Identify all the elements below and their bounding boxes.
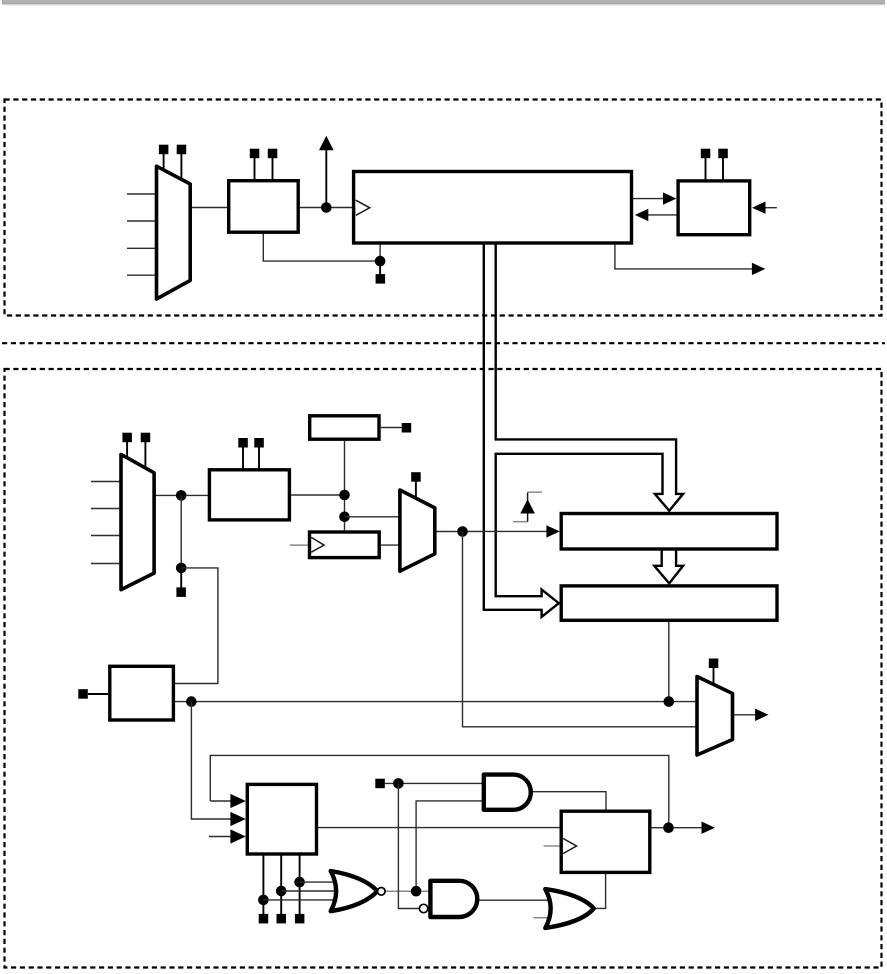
stem capture-mode select 2 (258, 448, 260, 470)
node capture path dot 2 (339, 512, 350, 523)
arrowhead up on timer clock node (319, 136, 334, 151)
clock triangle on flip-flop (563, 838, 577, 853)
wire EQU line from latch to output mux and gates (173, 701, 697, 703)
wire output unit bottom stub 1 (262, 854, 264, 914)
label square SCCI (176, 587, 186, 597)
label square OUT (375, 779, 385, 789)
node CCI junction dot (176, 490, 187, 501)
node timer clock junction dot (321, 202, 332, 213)
dashed border timer-block section (5, 100, 882, 316)
sync box (310, 532, 380, 558)
wire POR stub into OR2 (534, 917, 554, 919)
divider box ID (229, 181, 299, 233)
label square mux2 select 1 (122, 433, 131, 443)
OR gate 2 (545, 889, 594, 928)
stem output mux select (713, 668, 715, 684)
wire SCCI to latch box path (173, 568, 218, 684)
label square mux2 select 2 (141, 433, 151, 443)
node clear junction dot (375, 256, 386, 267)
wire clear stub down to label square (379, 261, 381, 274)
mux TASSEL (input select) (157, 166, 191, 299)
wire divider clear path (263, 232, 380, 261)
wire OUT signal with label to AND1 (385, 782, 484, 784)
wire mux2 output to capture-mode box (154, 494, 209, 496)
wire mux2 input 3 (91, 535, 121, 537)
node EQU junction dot (664, 696, 675, 707)
label square clear signal (376, 274, 386, 284)
wire up-arrow shaft on timer clock node (325, 150, 327, 208)
NOR output bubble (378, 888, 386, 896)
arrowhead output unit input 2 (230, 812, 245, 826)
wire mux2 input 1 (91, 481, 121, 483)
wire mux1 to divider (190, 207, 229, 209)
arrowhead into count-mode box (663, 192, 676, 204)
wire compare latch bottom stub (668, 620, 670, 701)
wire timer overflow output (615, 243, 753, 269)
wire timer clock stub into flip-flop (544, 845, 560, 847)
rising edge glyph low line (513, 521, 528, 523)
clock triangle on timer register (356, 200, 370, 215)
wire mux2 input 4 (91, 563, 121, 565)
mux SCS (sync select) (400, 490, 435, 571)
mux CCIS (capture input select) (121, 454, 154, 589)
arrowhead capture into register (546, 525, 559, 537)
arrowhead into timer (635, 209, 648, 221)
stem SCS mux select (415, 481, 417, 499)
NOR gate (331, 871, 378, 911)
hollow bus arrow from timer to capture register and compare latch (484, 243, 683, 617)
label square count-mode select 1 (701, 149, 711, 159)
stem capture-mode select 1 (242, 448, 244, 470)
AND gate 2 with bubble (430, 881, 477, 917)
label square count-mode select 2 (718, 149, 728, 159)
node outmod dot 3 (294, 877, 305, 888)
wire outmod to NOR input 2 (281, 890, 341, 892)
wire count-mode box to timer (648, 214, 678, 216)
label square mux1 select 1 (159, 145, 169, 155)
wire mux1 input 1 (127, 193, 157, 195)
arrowhead output mux out (755, 709, 768, 721)
label square output mux select (709, 659, 719, 669)
mux CAP (capture/compare select) (697, 677, 733, 756)
page header gray bar (2, 0, 885, 5)
label square SCS select (411, 472, 421, 482)
wire SCS mux output to capture register (435, 530, 547, 532)
wire capture-mode output (291, 494, 344, 496)
dashed border capture-compare section (5, 369, 882, 968)
wire sync box output to SCS mux (381, 544, 400, 546)
wire outmod to NOR input 1 (263, 899, 341, 901)
stem count-mode select 2 (722, 158, 724, 181)
wire timer clock stub into sync (290, 544, 308, 546)
label square outmod 3 (295, 914, 305, 924)
wire AND1 output to flip-flop top (531, 792, 606, 812)
label square capture-mode select 2 (254, 438, 263, 448)
wire mux1 input 4 (127, 274, 157, 276)
AND2 input bubble (419, 904, 427, 912)
label square outmod 2 (277, 914, 287, 924)
wire CCI vertical branch (180, 495, 182, 568)
wire output mux out (733, 714, 756, 716)
node SCCI junction dot (176, 563, 187, 574)
label square mux1 select 2 (177, 145, 187, 155)
arrowhead output unit input 3 (230, 829, 245, 843)
wire mux1 input 2 (127, 220, 157, 222)
label square COV (402, 423, 412, 433)
label square capture-mode select 1 (238, 438, 248, 448)
wire async branch to SCS mux (345, 516, 400, 518)
rising edge glyph vertical (527, 492, 529, 522)
label square divider select 2 (268, 149, 278, 159)
arrowhead output unit input 1 (230, 794, 245, 808)
node NOR out dot (411, 886, 422, 897)
wire outmod to NOR input 3 (300, 881, 341, 883)
label square outmod 1 (259, 914, 269, 924)
wire EQU0 vertical to output unit (191, 702, 231, 819)
node capture path dot 1 (339, 490, 350, 501)
wire mux2 input 2 (91, 508, 121, 510)
stem divider select 2 (272, 158, 274, 181)
wire NOR output to AND2 (385, 890, 432, 892)
label square divider select 1 (250, 149, 259, 159)
rising edge glyph high line (528, 491, 542, 493)
stem mux1 select 1 (163, 154, 165, 171)
node outmod dot 2 (276, 886, 287, 897)
wire clear stub up to timer (379, 243, 381, 261)
wire OUT down to AND2 bubble (398, 783, 419, 908)
stem mux2 select 1 (126, 442, 128, 459)
wire divider to timer clock input (298, 207, 353, 209)
node outmod dot 1 (258, 895, 269, 906)
wire OR2 output to flip-flop bottom (594, 872, 606, 908)
capture register box (561, 514, 777, 550)
D flip-flop box (561, 811, 650, 872)
wire stub into count-mode right (765, 207, 777, 209)
wire CAP select box square stub (88, 693, 110, 695)
logic box above sync (310, 416, 379, 439)
node EQU0 dot at CAP box (186, 696, 197, 707)
wire OUT feedback horizontal (210, 755, 669, 827)
capture mode box (209, 470, 289, 520)
rising edge glyph arrow (520, 499, 535, 513)
stem mux1 select 2 (180, 154, 182, 180)
wire NOR out up to AND1 input 2 (416, 801, 484, 891)
arrowhead into count-mode right (752, 202, 765, 214)
dashed divider line (2, 342, 885, 344)
timer register box (354, 172, 632, 244)
wire capture signal down to output mux (463, 532, 698, 727)
stem divider select 1 (254, 158, 256, 181)
hollow arrow capture register to compare latch (654, 550, 683, 584)
wire timer clock stub into output unit (209, 836, 231, 838)
wire flip-flop output (650, 827, 702, 829)
wire mux1 input 3 (127, 247, 157, 249)
AND gate 1 (484, 775, 531, 810)
wire output unit bottom stub 2 (280, 854, 282, 914)
node capture signal dot (457, 526, 468, 537)
wire AND2 output to OR2 (477, 899, 552, 901)
wire top box output to label (381, 427, 402, 429)
stem mux2 select 2 (144, 442, 146, 469)
wire vertical CCI to sync (344, 441, 346, 530)
stem SCCI label (180, 568, 182, 588)
wire timer to count-mode box (632, 198, 665, 200)
compare latch box (561, 586, 777, 620)
count mode box (678, 181, 750, 235)
output unit box (247, 784, 316, 854)
wire into output unit arrow 1 (210, 800, 231, 802)
clock triangle on sync box (311, 537, 324, 552)
arrowhead timer overflow (752, 263, 765, 275)
wire output unit D signal to flip-flop (317, 827, 562, 829)
node OUT dot (393, 778, 404, 789)
node OUT feedback dot (663, 822, 674, 833)
wire output unit bottom stub 3 (299, 854, 301, 914)
CAP select box (110, 666, 174, 720)
label square CAP (78, 689, 88, 699)
stem count-mode select 1 (705, 158, 707, 181)
arrowhead timer output signal (702, 822, 715, 834)
